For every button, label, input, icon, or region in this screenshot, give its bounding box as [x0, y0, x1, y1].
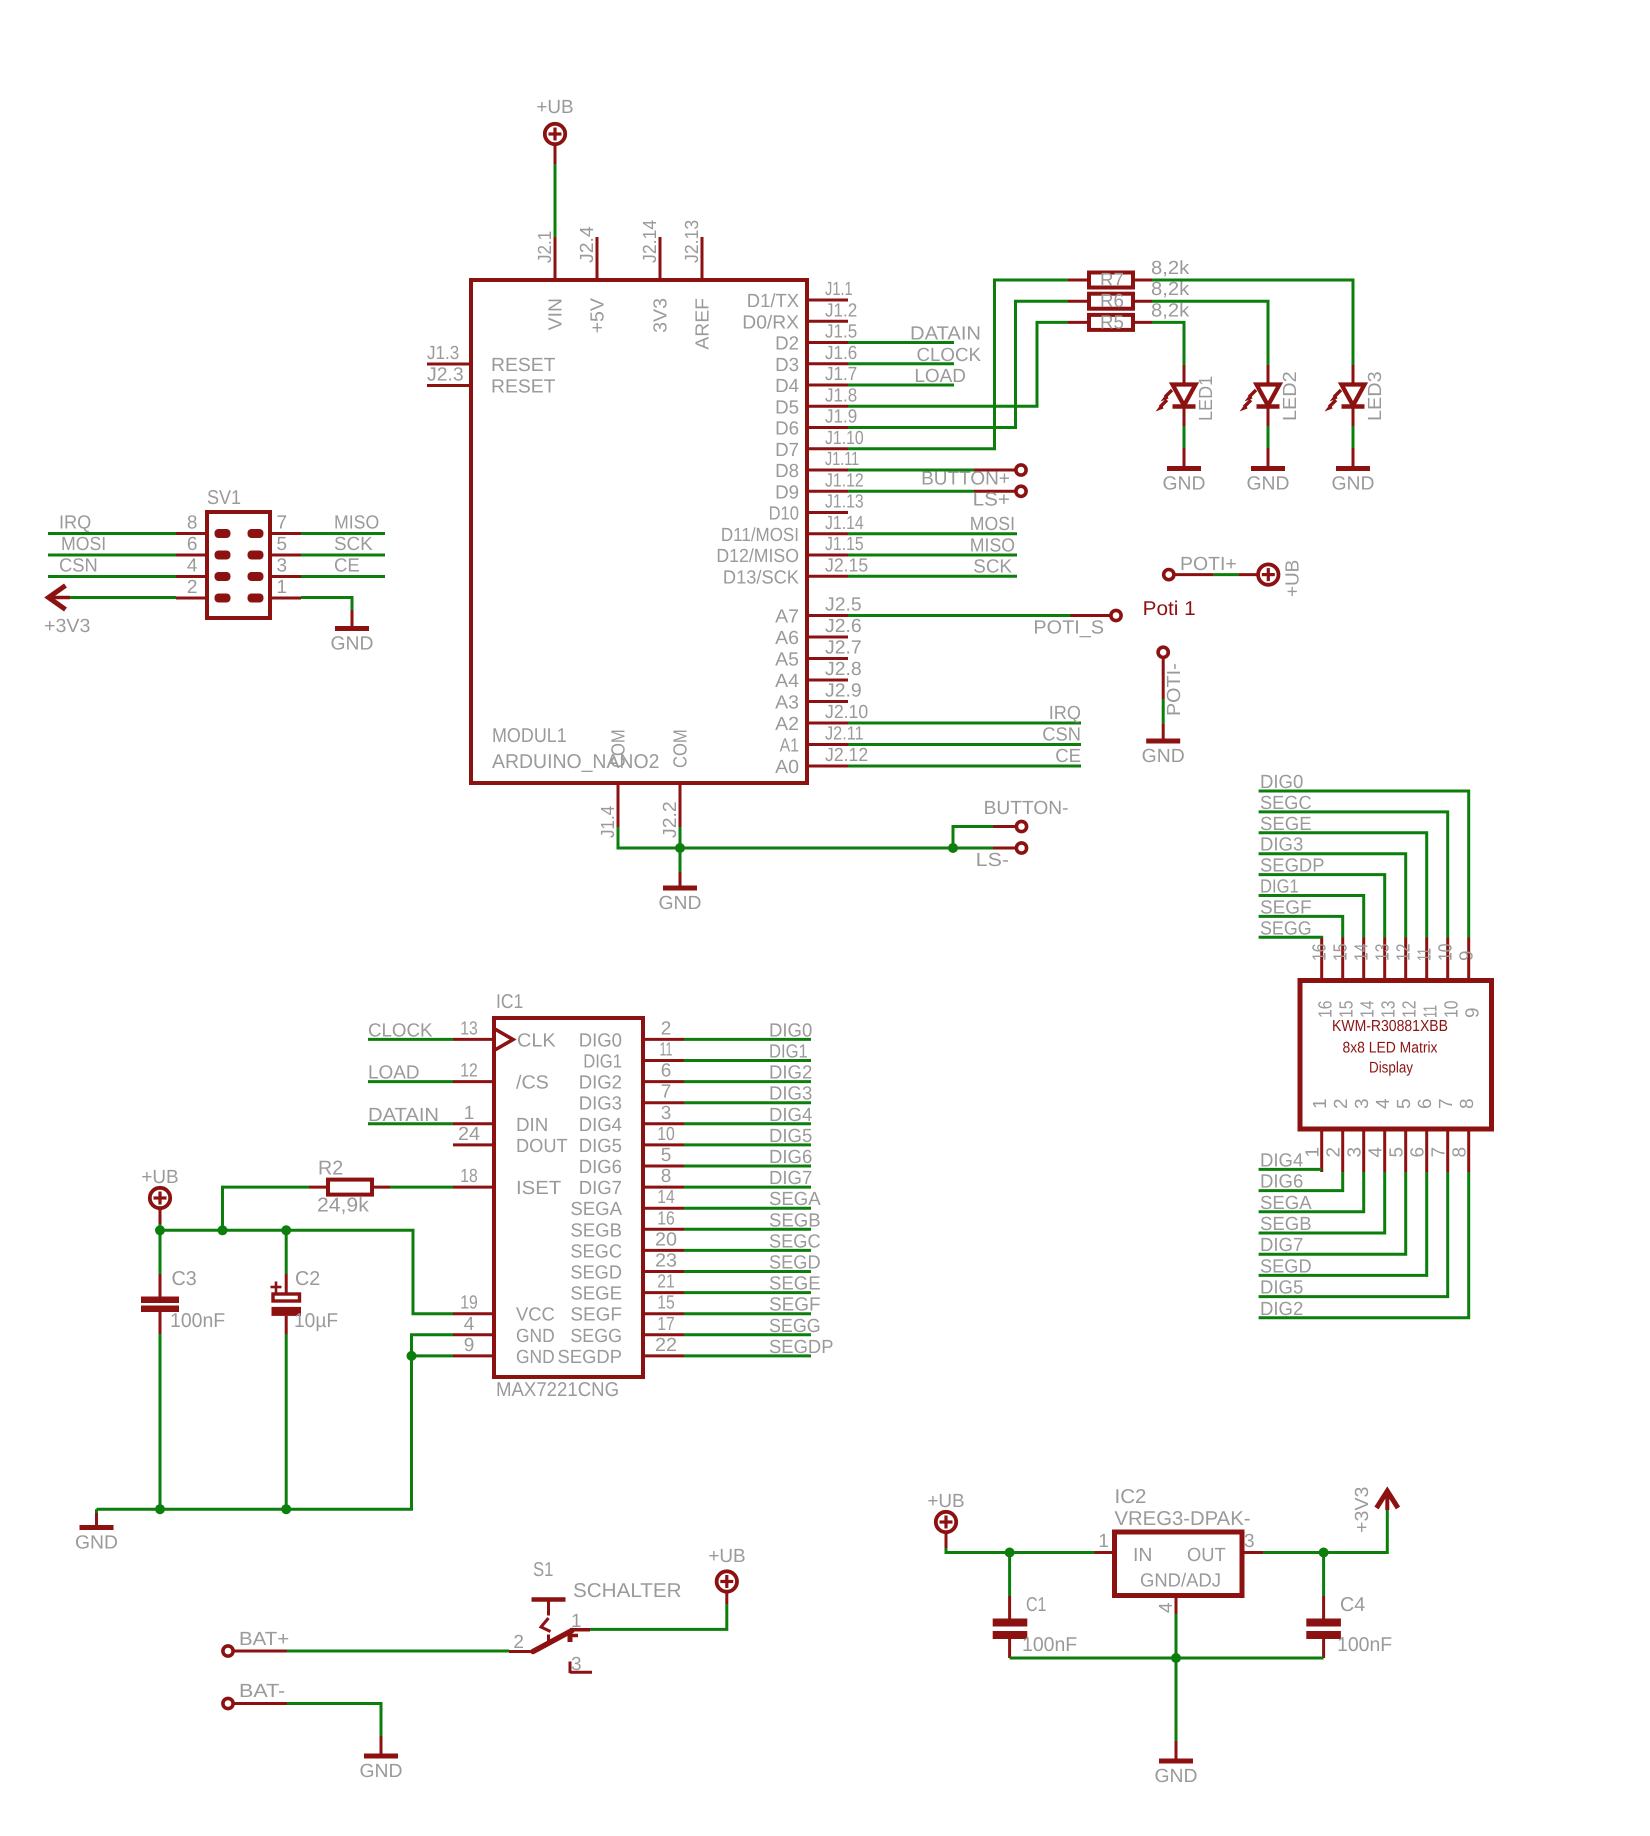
svg-text:DIG2: DIG2	[579, 1073, 622, 1094]
svg-text:100nF: 100nF	[1022, 1634, 1077, 1656]
svg-text:AREF: AREF	[693, 298, 714, 350]
svg-text:J2.13: J2.13	[682, 220, 703, 263]
svg-text:A4: A4	[775, 671, 799, 692]
LED LED2	[1240, 365, 1302, 426]
svg-text:RESET: RESET	[491, 355, 556, 376]
svg-text:J1.6: J1.6	[825, 343, 857, 364]
svg-text:J1.11: J1.11	[825, 449, 859, 470]
ground (BAT-)	[360, 1736, 403, 1782]
wire SEGDP (matrix top)	[1259, 856, 1385, 938]
wire DATAIN (IC1)	[368, 1105, 453, 1126]
wire IC2 OUT to +3V3	[1242, 1510, 1387, 1553]
pin 9 GND	[453, 1354, 494, 1357]
ground (module COM)	[659, 848, 702, 914]
svg-text:DIG3: DIG3	[579, 1094, 622, 1115]
wire IRQ (module)	[848, 703, 1081, 724]
pin 4 GND	[453, 1333, 494, 1336]
pin J2.4 +5V	[596, 237, 599, 280]
wire SCK (module)	[848, 557, 1017, 578]
svg-text:2: 2	[187, 577, 198, 598]
supply +UB (module VIN)	[536, 97, 573, 164]
wire SEGF (matrix top)	[1259, 897, 1343, 937]
svg-text:J1.15: J1.15	[825, 534, 864, 555]
svg-text:LED2: LED2	[1280, 371, 1301, 421]
wire D7 to R7	[848, 280, 1068, 449]
svg-text:DATAIN: DATAIN	[910, 324, 981, 345]
svg-text:12: 12	[1394, 944, 1415, 962]
svg-text:7: 7	[661, 1082, 672, 1103]
svg-text:+UB: +UB	[708, 1546, 745, 1567]
svg-text:J1.14: J1.14	[825, 513, 864, 534]
svg-text:SEGDP: SEGDP	[769, 1337, 834, 1358]
svg-text:8: 8	[1457, 1098, 1478, 1109]
svg-text:SEGA: SEGA	[769, 1189, 821, 1210]
svg-text:GND: GND	[1247, 474, 1290, 495]
junction	[1005, 1548, 1015, 1558]
wire R7 to LED3	[1152, 280, 1353, 365]
svg-text:D12/MISO: D12/MISO	[716, 546, 799, 567]
svg-text:VREG3-DPAK-: VREG3-DPAK-	[1115, 1508, 1251, 1530]
svg-text:J2.14: J2.14	[640, 219, 661, 263]
svg-text:D5: D5	[775, 397, 799, 418]
svg-text:IC2: IC2	[1115, 1486, 1147, 1508]
svg-text:3: 3	[1345, 1147, 1366, 1158]
svg-text:A1: A1	[780, 736, 799, 757]
pin 14 SEGA	[643, 1207, 684, 1210]
net BAT-	[223, 1681, 381, 1736]
svg-text:5: 5	[661, 1145, 672, 1166]
ground (IC1 area)	[75, 1509, 118, 1553]
pin J2.2 COM	[679, 783, 682, 827]
ground (POTI-)	[1142, 723, 1185, 767]
wire MOSI (module)	[848, 514, 1017, 535]
wire LED3 to GND	[1352, 426, 1355, 448]
svg-text:GND: GND	[360, 1761, 403, 1782]
svg-text:ISET: ISET	[516, 1178, 562, 1199]
svg-text:GND/ADJ: GND/ADJ	[1140, 1571, 1221, 1592]
svg-text:J2.4: J2.4	[577, 226, 598, 263]
wire DIG3 (IC1)	[684, 1084, 812, 1105]
pin 6 DIG2	[643, 1080, 684, 1083]
wire SEGE (IC1)	[684, 1274, 821, 1295]
svg-text:3: 3	[1352, 1098, 1373, 1109]
net BUTTON-	[953, 798, 1069, 848]
svg-text:J2.1: J2.1	[535, 231, 556, 263]
pin J2.1 VIN	[554, 237, 557, 280]
svg-text:5: 5	[1394, 1098, 1415, 1109]
svg-text:D2: D2	[775, 334, 799, 355]
ground (LED2)	[1247, 448, 1290, 495]
svg-text:GND: GND	[331, 634, 374, 655]
pin 1 DIN	[453, 1122, 494, 1125]
svg-text:20: 20	[655, 1229, 677, 1250]
svg-text:A7: A7	[775, 607, 799, 628]
svg-text:MODUL1: MODUL1	[492, 725, 567, 747]
svg-text:J1.2: J1.2	[825, 300, 857, 321]
svg-text:DIG7: DIG7	[769, 1168, 812, 1189]
svg-text:SEGA: SEGA	[1260, 1193, 1312, 1214]
pin 4 / pin 3	[176, 575, 207, 578]
svg-text:3: 3	[277, 556, 288, 577]
svg-text:24: 24	[458, 1124, 480, 1145]
pin J1.10 D7	[807, 447, 848, 450]
svg-text:J1.5: J1.5	[825, 322, 857, 343]
svg-text:22: 22	[655, 1335, 677, 1356]
svg-text:13: 13	[460, 1018, 478, 1039]
svg-text:IRQ: IRQ	[59, 513, 91, 534]
wire DIG4 (IC1)	[684, 1105, 813, 1126]
svg-text:1: 1	[1098, 1531, 1109, 1552]
svg-text:11: 11	[1415, 948, 1436, 961]
svg-text:MOSI: MOSI	[970, 514, 1015, 535]
svg-text:D1/TX: D1/TX	[747, 291, 800, 312]
wire LED2 to GND	[1267, 426, 1270, 448]
LED LED3	[1325, 365, 1387, 426]
junction	[155, 1225, 165, 1235]
svg-text:SEGC: SEGC	[1260, 793, 1312, 814]
svg-text:J2.10: J2.10	[825, 702, 868, 723]
svg-text:23: 23	[655, 1251, 677, 1272]
svg-text:RESET: RESET	[491, 377, 556, 398]
svg-text:+UB: +UB	[927, 1491, 964, 1512]
junction	[948, 843, 958, 853]
svg-text:A6: A6	[775, 628, 799, 649]
svg-text:J2.6: J2.6	[825, 616, 862, 637]
svg-text:7: 7	[1436, 1098, 1457, 1109]
svg-text:+UB: +UB	[1283, 560, 1304, 597]
pin 20 SEGC	[643, 1249, 684, 1252]
pin 5 DIG6	[643, 1165, 684, 1168]
wire CE (SV1)	[301, 556, 385, 577]
svg-text:21: 21	[657, 1272, 675, 1293]
svg-text:15: 15	[657, 1293, 675, 1314]
svg-text:DIG7: DIG7	[1260, 1235, 1303, 1256]
svg-text:A5: A5	[775, 650, 799, 671]
wire IC2 GND/ADJ	[1175, 1596, 1178, 1659]
svg-text:10: 10	[657, 1124, 675, 1145]
svg-text:1: 1	[277, 577, 288, 598]
svg-text:J2.5: J2.5	[825, 595, 862, 616]
pin 24 DOUT	[453, 1143, 494, 1146]
svg-text:14: 14	[1358, 1000, 1379, 1018]
svg-text:SEGF: SEGF	[1260, 897, 1312, 918]
svg-text:CLOCK: CLOCK	[368, 1020, 433, 1041]
svg-text:SEGC: SEGC	[570, 1241, 622, 1262]
wire SEGA (matrix bottom)	[1259, 1172, 1364, 1214]
svg-text:CE: CE	[1055, 746, 1081, 767]
svg-text:10: 10	[1436, 944, 1457, 962]
svg-text:J2.12: J2.12	[825, 745, 868, 766]
junction	[155, 1504, 165, 1514]
svg-text:R7: R7	[1100, 270, 1124, 291]
svg-text:J2.3: J2.3	[427, 365, 464, 386]
wire IRQ (SV1)	[48, 513, 176, 534]
pin J2.15 D13/SCK	[807, 575, 848, 578]
pin 19 VCC	[453, 1312, 494, 1315]
wire R2 to ISET	[390, 1186, 453, 1189]
svg-text:2: 2	[661, 1018, 672, 1039]
net LS-	[953, 843, 1027, 871]
wire SEGE (matrix top)	[1259, 814, 1427, 938]
svg-text:+5V: +5V	[588, 298, 609, 334]
resistor R5	[1068, 300, 1190, 333]
wire D5 to R5	[848, 322, 1068, 406]
svg-text:KWM-R30881XBB: KWM-R30881XBB	[1332, 1018, 1448, 1035]
svg-text:J2.11: J2.11	[825, 724, 864, 745]
svg-text:GND: GND	[1163, 474, 1206, 495]
wire DIG5 (matrix bottom)	[1259, 1172, 1448, 1299]
pin 21 SEGE	[643, 1291, 684, 1294]
svg-text:6: 6	[661, 1061, 672, 1082]
wire DIG6 (IC1)	[684, 1147, 812, 1168]
svg-text:SEGD: SEGD	[1260, 1256, 1312, 1277]
svg-text:8,2k: 8,2k	[1151, 258, 1190, 279]
svg-text:3V3: 3V3	[651, 298, 672, 333]
pin J1.3 RESET	[427, 363, 471, 366]
svg-text:8,2k: 8,2k	[1151, 279, 1190, 300]
wire SEGDP (IC1)	[684, 1337, 834, 1358]
pin J2.13 AREF	[701, 237, 704, 280]
pin 3 DIG4	[643, 1122, 684, 1125]
svg-text:J2.9: J2.9	[825, 681, 862, 702]
svg-text:Display: Display	[1369, 1060, 1413, 1077]
pin 9 (top) / pin 8 (bottom)	[1467, 938, 1470, 981]
pin 23 SEGD	[643, 1270, 684, 1273]
svg-text:4: 4	[1156, 1602, 1177, 1613]
pin J2.8 A4	[807, 679, 848, 682]
pin J2.10 A2	[807, 722, 848, 725]
svg-text:GND: GND	[1155, 1766, 1198, 1787]
wire R5 to LED1	[1152, 322, 1184, 365]
pin J1.7 D4	[807, 384, 848, 387]
wire DIG5 (IC1)	[684, 1126, 812, 1147]
svg-text:SEGE: SEGE	[570, 1284, 622, 1305]
capacitor C1	[993, 1553, 1077, 1659]
svg-text:+UB: +UB	[536, 97, 573, 118]
svg-text:J1.4: J1.4	[598, 805, 619, 838]
LED LED1	[1156, 365, 1218, 426]
svg-text:GND: GND	[659, 893, 702, 914]
wire MISO (module)	[848, 535, 1017, 556]
svg-text:DIG5: DIG5	[579, 1136, 622, 1157]
svg-text:LS+: LS+	[973, 490, 1010, 511]
svg-text:ARDUINO_NANO2: ARDUINO_NANO2	[492, 751, 659, 773]
svg-text:J2.2: J2.2	[660, 801, 681, 838]
pin 15 (top) / pin 2 (bottom)	[1341, 938, 1344, 981]
svg-text:SEGD: SEGD	[570, 1263, 622, 1284]
net POTI-	[1158, 647, 1185, 723]
svg-text:SEGG: SEGG	[769, 1316, 821, 1337]
wire DIG7 (matrix bottom)	[1259, 1172, 1406, 1256]
pin 2 / pin 1	[176, 597, 207, 600]
svg-text:6: 6	[1408, 1147, 1429, 1158]
pin 11 DIG1	[643, 1059, 684, 1062]
svg-text:DIG3: DIG3	[769, 1084, 812, 1105]
wire SEGD (matrix bottom)	[1259, 1172, 1427, 1277]
pin 10 DIG5	[643, 1143, 684, 1146]
supply +3V3 (IC2)	[1352, 1487, 1398, 1533]
wire +UB to J2.1	[554, 164, 557, 237]
pin 8 / pin 7	[176, 532, 207, 535]
svg-text:D8: D8	[775, 461, 799, 482]
svg-text:GND: GND	[1142, 746, 1185, 767]
svg-text:/CS: /CS	[516, 1073, 549, 1094]
wire CLOCK (module)	[848, 345, 981, 366]
pin J2.5 A7	[807, 614, 848, 617]
pin J2.12 A0	[807, 765, 848, 768]
net LS+	[848, 486, 1026, 510]
wire DIG0 (IC1)	[684, 1020, 812, 1041]
svg-text:POTI+: POTI+	[1180, 554, 1237, 575]
svg-text:R6: R6	[1100, 291, 1124, 312]
svg-text:10: 10	[1442, 1001, 1463, 1019]
svg-text:SEGD: SEGD	[769, 1253, 821, 1274]
pin J1.8 D5	[807, 405, 848, 408]
svg-text:MAX7221CNG: MAX7221CNG	[496, 1379, 619, 1401]
ground (LED3)	[1332, 448, 1375, 495]
svg-text:13: 13	[1373, 944, 1394, 962]
svg-text:COM: COM	[609, 729, 630, 768]
svg-text:2: 2	[1324, 1147, 1345, 1158]
svg-text:SV1: SV1	[207, 487, 241, 509]
pin 22 SEGDP	[643, 1354, 684, 1357]
pin 13 (top) / pin 4 (bottom)	[1383, 938, 1386, 981]
svg-text:2: 2	[513, 1632, 524, 1653]
pin 10 (top) / pin 7 (bottom)	[1446, 938, 1449, 981]
svg-text:VIN: VIN	[546, 298, 567, 330]
svg-text:100nF: 100nF	[170, 1310, 225, 1332]
svg-text:COM: COM	[671, 729, 692, 768]
svg-text:POTI-: POTI-	[1164, 663, 1185, 716]
svg-text:4: 4	[187, 556, 198, 577]
svg-text:+UB: +UB	[141, 1167, 178, 1188]
net BAT+	[223, 1629, 509, 1656]
svg-text:DIG0: DIG0	[579, 1030, 622, 1051]
wire DIG3 (matrix top)	[1259, 835, 1406, 938]
capacitor C3	[141, 1230, 225, 1334]
svg-text:GND: GND	[1332, 474, 1375, 495]
svg-text:DIG2: DIG2	[1260, 1299, 1303, 1320]
svg-text:6: 6	[187, 534, 198, 555]
pin J1.2 D0/RX	[807, 320, 848, 323]
pin J2.14 3V3	[659, 237, 662, 280]
junction	[675, 843, 685, 853]
net POTI+	[1164, 554, 1257, 580]
wire DIG1 (IC1)	[684, 1042, 811, 1063]
wire C2 to GND bus	[285, 1334, 288, 1509]
wire SEGG (matrix top)	[1259, 918, 1322, 939]
svg-text:16: 16	[1310, 944, 1331, 962]
net BUTTON+	[848, 465, 1026, 490]
svg-text:DIG0: DIG0	[769, 1020, 812, 1041]
svg-text:J1.10: J1.10	[825, 428, 864, 449]
pin J1.5 D2	[807, 341, 848, 344]
svg-text:5: 5	[1387, 1147, 1408, 1158]
svg-text:1: 1	[571, 1611, 582, 1632]
svg-text:19: 19	[460, 1293, 478, 1314]
svg-text:DIG5: DIG5	[1260, 1278, 1303, 1299]
IC IC1 MAX7221CNG	[453, 991, 684, 1401]
svg-text:R5: R5	[1100, 312, 1124, 333]
wire SEGC (IC1)	[684, 1231, 821, 1252]
svg-text:3: 3	[1244, 1531, 1255, 1552]
svg-text:BAT-: BAT-	[239, 1681, 285, 1702]
resistor R6	[1068, 279, 1190, 312]
svg-text:DIN: DIN	[516, 1115, 548, 1136]
svg-text:9: 9	[1463, 1007, 1484, 1018]
svg-text:4: 4	[1373, 1098, 1394, 1109]
svg-text:CSN: CSN	[59, 556, 98, 577]
svg-text:IN: IN	[1133, 1545, 1152, 1566]
junction	[407, 1351, 417, 1361]
svg-text:BUTTON+: BUTTON+	[921, 469, 1010, 490]
svg-text:J2.8: J2.8	[825, 659, 862, 680]
svg-text:SEGG: SEGG	[570, 1326, 622, 1347]
svg-text:SCK: SCK	[334, 534, 373, 555]
connector SV1	[176, 487, 301, 618]
pin J1.14 D11/MOSI	[807, 532, 848, 535]
svg-text:DIG6: DIG6	[1260, 1172, 1303, 1193]
svg-text:13: 13	[1379, 1001, 1400, 1019]
svg-text:CSN: CSN	[1042, 725, 1081, 746]
svg-text:POTI_S: POTI_S	[1033, 618, 1104, 639]
svg-text:9: 9	[1457, 950, 1478, 961]
wire bus to R2	[223, 1187, 310, 1230]
svg-text:J1.1: J1.1	[825, 279, 853, 300]
resistor R7	[1068, 258, 1190, 291]
svg-text:2: 2	[1331, 1098, 1352, 1109]
ground (IC2)	[1155, 1658, 1198, 1787]
net POTI_S	[848, 610, 1121, 638]
svg-text:DIG1: DIG1	[1260, 877, 1299, 898]
svg-text:J1.12: J1.12	[825, 470, 864, 491]
svg-text:12: 12	[1400, 1001, 1421, 1019]
svg-text:J1.13: J1.13	[825, 492, 864, 513]
svg-text:DIG6: DIG6	[769, 1147, 812, 1168]
svg-text:16: 16	[657, 1208, 675, 1229]
svg-text:10µF: 10µF	[294, 1310, 338, 1332]
svg-text:1: 1	[1303, 1147, 1324, 1158]
pin 17 SEGG	[643, 1333, 684, 1336]
wire D6 to R6	[848, 301, 1068, 427]
capacitor C4	[1306, 1553, 1392, 1659]
svg-text:4: 4	[1366, 1147, 1387, 1158]
svg-text:+3V3: +3V3	[1352, 1487, 1373, 1533]
pin J2.11 A1	[807, 743, 848, 746]
svg-text:D3: D3	[775, 355, 799, 376]
wire SEGG (IC1)	[684, 1316, 821, 1337]
wire C3 to GND bus	[159, 1334, 162, 1509]
wire DIG1 (matrix top)	[1259, 877, 1364, 938]
svg-text:SEGF: SEGF	[570, 1305, 622, 1326]
svg-text:8x8 LED Matrix: 8x8 LED Matrix	[1343, 1040, 1438, 1057]
svg-text:18: 18	[460, 1166, 478, 1187]
svg-text:IRQ: IRQ	[1049, 703, 1081, 724]
wire GND bus (IC2)	[1010, 1657, 1324, 1660]
svg-text:DIG5: DIG5	[769, 1126, 812, 1147]
svg-text:SEGA: SEGA	[570, 1199, 622, 1220]
svg-text:C4: C4	[1340, 1594, 1365, 1616]
svg-text:SCK: SCK	[973, 557, 1012, 578]
svg-text:1: 1	[1310, 1098, 1331, 1109]
pin J1.1 D1/TX	[807, 299, 848, 302]
wire GND pin9	[412, 1354, 454, 1357]
svg-text:D13/SCK: D13/SCK	[723, 567, 799, 588]
svg-text:CE: CE	[334, 556, 360, 577]
svg-text:DATAIN: DATAIN	[368, 1105, 439, 1126]
svg-text:7: 7	[1429, 1147, 1450, 1158]
svg-text:S1: S1	[533, 1559, 553, 1581]
